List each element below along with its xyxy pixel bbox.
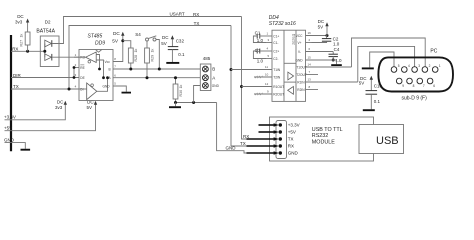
svg-text:USB: USB [376, 135, 399, 147]
svg-text:R2IN: R2IN [297, 88, 305, 92]
label USART [170, 12, 185, 17]
sub-D pin 9 [396, 78, 404, 88]
svg-text:15: 15 [308, 56, 312, 60]
svg-text:1k: 1k [179, 85, 183, 89]
svg-text:DD4: DD4 [269, 15, 279, 21]
svg-text:5V: 5V [318, 24, 324, 29]
sub-D pin 5 [391, 64, 400, 72]
connector sub-D 9 (F) shell [378, 57, 453, 91]
svg-text:Vcc: Vcc [105, 60, 111, 64]
node TX [13, 84, 19, 89]
svg-text:D2: D2 [45, 19, 51, 24]
pin 3 DE stub [74, 73, 85, 80]
internal wires DD9 [96, 55, 109, 92]
svg-text:T2OUT: T2OUT [296, 73, 307, 77]
pin 4 DI stub [74, 85, 84, 92]
label RX (module wire) [243, 134, 249, 139]
sub-D pin 3 [412, 64, 420, 72]
svg-text:C32: C32 [176, 38, 185, 43]
resistor R28 1k bias [128, 48, 138, 71]
pin 16 VCC [296, 31, 329, 38]
svg-text:B: B [109, 67, 111, 71]
svg-text:TX: TX [288, 137, 294, 142]
module pin TX [247, 137, 294, 142]
module pin +3.3V [259, 123, 300, 128]
pin 2 V+ [298, 38, 312, 45]
resistor R27 1k pull-up [20, 32, 30, 51]
svg-text:R27: R27 [20, 40, 24, 47]
wire T1OUT to sub-D pin 2 [352, 38, 426, 67]
capacitor C3 1.0 [253, 48, 266, 64]
svg-text:RX: RX [12, 46, 18, 51]
ground symbol (DD9) [122, 92, 132, 94]
svg-text:R1IN: R1IN [297, 80, 305, 84]
svg-text:R30: R30 [179, 90, 183, 97]
pin 15 GND [296, 56, 337, 65]
wire USART TX [69, 26, 231, 90]
module pin GND [247, 151, 299, 156]
wire sub-D pin 5 to ground [370, 52, 394, 67]
svg-text:TX: TX [194, 21, 200, 26]
pin 9 R2OUT [254, 90, 284, 97]
svg-text:T2IN: T2IN [273, 75, 281, 79]
wire R1IN to sub-D pin 3 [358, 46, 415, 82]
svg-text:13: 13 [308, 78, 312, 82]
svg-text:MODULE: MODULE [312, 139, 335, 145]
node RX [12, 46, 18, 51]
svg-text:3v3: 3v3 [55, 105, 63, 110]
ground symbol (DD4) [331, 64, 342, 66]
svg-text:8: 8 [413, 84, 415, 88]
svg-text:5: 5 [398, 64, 400, 68]
wire USART TX down [230, 26, 247, 147]
jumper RE-DE [73, 66, 76, 79]
svg-text:GND: GND [103, 84, 111, 88]
wire TX to DI [11, 88, 79, 90]
power rail +5V [4, 110, 96, 131]
svg-text:DE: DE [80, 76, 84, 80]
svg-text:GND: GND [296, 58, 304, 62]
svg-text:GND: GND [288, 151, 299, 156]
pin 1 RO stub [74, 53, 86, 60]
svg-text:1.0: 1.0 [257, 59, 264, 64]
label TX (module wire) [240, 141, 246, 146]
svg-text:TX: TX [240, 141, 246, 146]
svg-text:10: 10 [265, 73, 269, 77]
svg-text:DC: DC [17, 14, 24, 19]
svg-text:T1IN: T1IN [273, 68, 281, 72]
pin 1 C1+ [266, 32, 279, 39]
svg-text:R28: R28 [134, 55, 138, 62]
wire D2 top cathode to USART RX [52, 17, 242, 44]
svg-text:V+: V+ [298, 41, 302, 45]
capacitor C10 0.1 [366, 84, 383, 110]
power flag DC 5V (rail) [87, 100, 98, 110]
power rail +3.3V [4, 110, 65, 120]
receiver buffer (inside DD9) [79, 52, 96, 63]
label sub-D 9 (F) [402, 96, 428, 102]
svg-text:S4: S4 [135, 32, 141, 37]
resistor R29 1k termination [145, 41, 155, 79]
svg-text:485: 485 [203, 56, 211, 61]
svg-text:+5V: +5V [288, 130, 296, 135]
pin 5 GND stub [103, 82, 127, 92]
ground symbol (sub-D pin5) [362, 67, 374, 69]
svg-text:DC: DC [57, 100, 64, 105]
ground symbol (rail) [21, 149, 31, 151]
svg-text:5V: 5V [112, 39, 119, 44]
power flag DC 3v3 (pull-up) [15, 14, 29, 32]
wire USART RX down [240, 17, 247, 140]
pin 12 R1OUT [242, 82, 285, 89]
USB plug box [359, 125, 404, 154]
label GND (module wire) [226, 145, 237, 150]
ground symbol (C32) [166, 62, 179, 64]
pin 11 T1IN [231, 65, 281, 72]
junction TX/DI [68, 88, 71, 91]
svg-text:RX: RX [193, 12, 199, 17]
svg-text:0.1: 0.1 [178, 52, 185, 57]
svg-text:5V: 5V [87, 105, 93, 110]
module header connector [276, 121, 287, 159]
pin 8 R2IN [297, 85, 318, 92]
pin 2 /RE stub [74, 63, 85, 70]
svg-text:2: 2 [429, 64, 431, 68]
pin 14 T1OUT [296, 63, 351, 70]
pin 13 R1IN [297, 78, 358, 85]
pin 4 C2+ [266, 47, 279, 54]
power rail GND [4, 137, 25, 148]
svg-text:5V: 5V [359, 81, 365, 86]
svg-text:sub-D 9 (F): sub-D 9 (F) [402, 96, 428, 102]
svg-text:C4: C4 [334, 47, 340, 52]
svg-text:A: A [212, 75, 215, 80]
svg-text:1k: 1k [134, 49, 138, 53]
svg-text:RX: RX [288, 144, 294, 149]
svg-text:0.1: 0.1 [374, 99, 381, 104]
pin 3 C1- [266, 38, 278, 45]
svg-text:1: 1 [439, 64, 441, 68]
capacitor C1 1.0 [253, 31, 266, 43]
sub-D pin 6 [427, 78, 435, 88]
svg-text:USB TO TTL: USB TO TTL [312, 127, 343, 133]
power flag DC 5V (C32) [161, 35, 174, 47]
svg-text:RX: RX [243, 134, 249, 139]
svg-text:RS232: RS232 [312, 133, 328, 139]
connector 485 terminal block [200, 56, 219, 91]
wire 485 GND terminal [194, 86, 201, 103]
power flag DC 5V (C10) [359, 76, 373, 91]
sub-D pin 1 [432, 64, 440, 72]
svg-text:ST232 so16: ST232 so16 [269, 21, 296, 27]
svg-text:DC: DC [113, 31, 120, 36]
switch S4 [135, 32, 161, 70]
diode D2 BAT54A [36, 19, 59, 66]
junction on RX wire [26, 50, 29, 53]
capacitor C2 1.0 [312, 36, 340, 47]
svg-text:+3.3V: +3.3V [288, 123, 300, 128]
power flag DC 5V (DD4) [318, 19, 329, 35]
sub-D pin 8 [407, 78, 415, 88]
svg-text:GND: GND [4, 137, 15, 142]
svg-text:12: 12 [265, 82, 269, 86]
svg-text:11: 11 [265, 65, 268, 69]
svg-text:3v3: 3v3 [15, 20, 23, 25]
svg-text:DD9: DD9 [95, 40, 105, 46]
node DIR [13, 73, 22, 78]
power flag DC 3v3 (rail) [55, 100, 67, 110]
svg-text:R2OUT: R2OUT [273, 92, 284, 96]
label TX (USART) [194, 21, 200, 26]
label PC [430, 49, 437, 55]
RS232 transceiver DD4 ST232 so16 [269, 15, 306, 101]
ground symbol (C10) [363, 109, 375, 111]
sub-D pin 7 [417, 78, 425, 88]
svg-text:RE: RE [80, 66, 84, 70]
svg-text:GND: GND [212, 84, 220, 88]
svg-text:1.0: 1.0 [257, 38, 264, 43]
svg-text:VCC: VCC [296, 34, 303, 38]
pin 8 Vcc stub [105, 41, 123, 64]
pin 10 T2IN [254, 73, 281, 80]
wire 5V to R28 [123, 41, 131, 48]
svg-text:14: 14 [308, 63, 312, 67]
capacitor C32 0.1 [168, 38, 185, 62]
label RX (USART) [193, 12, 199, 17]
svg-text:4: 4 [408, 64, 410, 68]
svg-text:C1-: C1- [273, 41, 278, 45]
svg-text:TX: TX [13, 84, 19, 89]
svg-text:1.0: 1.0 [333, 41, 340, 46]
svg-text:C1+: C1+ [273, 34, 279, 38]
pin 6 A stub [109, 73, 201, 80]
svg-text:PC: PC [430, 49, 437, 55]
svg-text:9: 9 [402, 84, 404, 88]
power flag DC 5V (DD9) [112, 31, 124, 44]
ground symbol (485 gnd) [169, 106, 181, 108]
capacitor C4 1.0 [329, 47, 343, 63]
svg-text:16: 16 [308, 31, 312, 35]
svg-text:3: 3 [418, 64, 420, 68]
svg-text:ST485: ST485 [88, 33, 103, 39]
svg-text:T1OUT: T1OUT [296, 65, 307, 69]
RS485 transceiver U DD9 ST485 [79, 33, 113, 100]
svg-text:B: B [212, 67, 215, 72]
svg-text:C2-: C2- [273, 57, 278, 61]
pin 5 C2- [266, 54, 278, 61]
svg-text:5V: 5V [161, 41, 167, 46]
wire GND to module [217, 103, 247, 154]
module pin +5V [259, 130, 296, 135]
pin 7 B stub [109, 65, 201, 72]
svg-text:V-: V- [298, 50, 301, 54]
svg-text:1k: 1k [150, 49, 154, 53]
svg-text:1k: 1k [20, 34, 24, 38]
svg-text:BAT54A: BAT54A [36, 28, 55, 34]
resistor R30 120 bias [173, 76, 183, 102]
svg-text:R29: R29 [150, 55, 154, 62]
module USB to TTL RS232 box [270, 117, 374, 161]
svg-text:R1OUT: R1OUT [273, 85, 284, 89]
wire RX from bus [11, 50, 45, 52]
MCU bus [10, 35, 12, 151]
svg-text:+5V: +5V [4, 125, 12, 130]
svg-text:DC: DC [162, 35, 169, 40]
svg-text:USART: USART [170, 12, 185, 17]
wire D2 bottom cathode to RO [52, 56, 79, 58]
wire DIR to DE [11, 77, 79, 79]
wire GND net [174, 101, 217, 106]
svg-text:7: 7 [423, 84, 425, 88]
svg-text:C2+: C2+ [273, 49, 279, 53]
module pin RX [247, 144, 295, 149]
pin 6 V- [298, 47, 333, 54]
sub-D pin 2 [422, 64, 431, 72]
driver buffer (inside DD9) [79, 83, 97, 100]
sub-D pin 4 [402, 64, 411, 72]
pin 7 T2OUT [296, 70, 318, 77]
svg-text:DS232: DS232 [291, 34, 295, 45]
svg-text:+3.3V: +3.3V [4, 115, 16, 120]
svg-text:6: 6 [433, 84, 435, 88]
